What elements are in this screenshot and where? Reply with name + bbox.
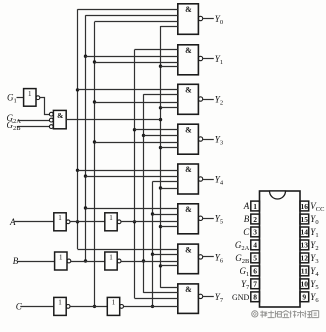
wire C vertical (x=152) — [152, 182, 154, 307]
junction Abar source — [76, 220, 79, 223]
pin 7 (Y7) — [241, 279, 259, 291]
junction Bbar source — [84, 259, 87, 262]
svg-text:16: 16 — [301, 202, 309, 211]
svg-text:3: 3 — [253, 228, 257, 237]
junction Bbar-Y5 — [84, 206, 87, 209]
NAND gate Y0 — [178, 4, 203, 35]
watermark juejin community — [252, 311, 319, 318]
wire input B — [17, 261, 54, 263]
output wire Y5 — [203, 218, 214, 220]
NAND gate Y1 — [178, 45, 203, 75]
junction E-Y3 — [159, 146, 162, 149]
junction Bbar-Y1 — [84, 55, 87, 58]
svg-text:2: 2 — [253, 215, 257, 224]
svg-text:&: & — [185, 5, 192, 14]
junction E-Y4 — [159, 186, 162, 189]
junction B-Y3 — [142, 134, 145, 137]
pin 1 (A) — [243, 201, 260, 211]
svg-text:12: 12 — [301, 254, 309, 263]
inverter G1 — [24, 89, 40, 107]
wire input A — [15, 221, 54, 223]
pin 9 (Y6) — [300, 292, 319, 304]
junction Abar-Y2 — [76, 88, 79, 91]
enable NAND gate — [49, 110, 66, 128]
IC body 74LS138 — [260, 191, 301, 307]
inverter A1 — [54, 213, 70, 231]
wire A to gate column — [121, 221, 178, 223]
svg-text:1: 1 — [109, 214, 113, 222]
pin 14 (Y1) — [300, 227, 319, 239]
wire Abar segment — [70, 221, 105, 223]
inverter C1 — [54, 297, 70, 315]
pin 5 (G2B) — [235, 253, 259, 265]
pin 2 (B) — [244, 214, 260, 224]
wire B vertical (x=143) — [143, 94, 145, 293]
output wire Y0 — [203, 18, 214, 20]
output wire Y3 — [203, 139, 214, 141]
output wire Y1 — [203, 58, 214, 60]
junction Cbar-Y1 — [93, 60, 96, 63]
svg-text:8: 8 — [253, 293, 257, 302]
svg-text:&: & — [185, 165, 192, 174]
junction E-Y1 — [159, 65, 162, 68]
wire Bbar segment — [71, 261, 105, 263]
wire C to gate column — [124, 306, 178, 308]
wire G2B — [18, 126, 50, 128]
wire Bbar vertical (x=86) — [85, 15, 87, 261]
pin 10 (Y5) — [300, 279, 319, 291]
wire Abar vertical (x=77) — [77, 9, 79, 249]
svg-text:14: 14 — [301, 228, 309, 237]
svg-text:A: A — [243, 201, 250, 211]
output wire Y2 — [203, 99, 214, 101]
wire Cbar segment — [70, 306, 107, 308]
NAND gate Y4 — [178, 164, 203, 194]
svg-text:B: B — [244, 214, 250, 224]
NAND gate Y7 — [178, 284, 203, 314]
junction C-Y6 — [151, 253, 154, 256]
junction A source — [133, 220, 136, 223]
junction A-Y3 — [133, 128, 136, 131]
junction Bbar-Y4 — [84, 174, 87, 177]
wire G2A — [18, 120, 50, 122]
svg-text:11: 11 — [301, 267, 308, 276]
NAND gate Y2 — [178, 84, 203, 114]
junction E source — [159, 118, 162, 121]
junction E-Y6 — [159, 264, 162, 267]
wire Cbar vertical (x=94) — [94, 22, 96, 307]
output wire Y4 — [203, 179, 214, 181]
svg-text:&: & — [185, 125, 192, 134]
pin 13 (Y2) — [300, 240, 319, 252]
junction Cbar-Y2 — [93, 100, 96, 103]
inverter B2 — [105, 252, 121, 270]
junction C-Y5 — [151, 212, 154, 215]
svg-text:10: 10 — [301, 280, 309, 289]
wire G1bar elbow — [40, 98, 50, 115]
output wire Y6 — [203, 256, 214, 258]
pin 12 (Y3) — [300, 253, 319, 265]
svg-text:C: C — [243, 227, 250, 237]
junction B source — [142, 259, 145, 262]
pin 8 (GND) — [232, 292, 260, 302]
svg-text:4: 4 — [253, 241, 257, 250]
wire A vertical (x=135) — [134, 50, 136, 299]
junction Cbar-Y3 — [93, 140, 96, 143]
svg-text:&: & — [185, 86, 192, 95]
svg-text:6: 6 — [253, 267, 257, 276]
junction E-Y5 — [159, 225, 162, 228]
NAND gate Y5 — [178, 204, 203, 234]
svg-text:1: 1 — [109, 253, 113, 261]
wire input C — [20, 306, 54, 308]
svg-text:1: 1 — [59, 253, 63, 261]
svg-text:5: 5 — [253, 254, 257, 263]
svg-text:&: & — [185, 245, 192, 254]
inverter B1 — [55, 252, 71, 270]
junction Cbar source — [93, 305, 96, 308]
inverter C2 — [107, 297, 123, 315]
svg-text:&: & — [185, 46, 192, 55]
pin 3 (C) — [243, 227, 259, 237]
svg-text:1: 1 — [28, 90, 32, 98]
junction E-Y2 — [159, 106, 162, 109]
wire E enable vertical (x=161) — [160, 26, 162, 288]
svg-text:1: 1 — [58, 214, 62, 222]
pin 16 (VCC) — [300, 201, 324, 213]
svg-text:15: 15 — [301, 215, 309, 224]
NAND gate Y3 — [178, 124, 203, 154]
pin 6 (G1) — [240, 266, 260, 278]
svg-text:&: & — [57, 111, 63, 120]
svg-text:9: 9 — [302, 293, 306, 302]
pin 15 (Y0) — [300, 214, 319, 226]
NAND gate Y6 — [178, 244, 203, 274]
svg-text:1: 1 — [112, 299, 116, 307]
wire enable output — [66, 119, 160, 121]
svg-text:7: 7 — [253, 280, 257, 289]
svg-text:GND: GND — [232, 293, 250, 302]
wire B to gate column — [121, 261, 178, 263]
svg-text:&: & — [185, 205, 192, 214]
pin 11 (Y4) — [300, 266, 319, 278]
wire G1 — [17, 97, 24, 99]
junction Abar-Y4 — [76, 169, 79, 172]
svg-text:1: 1 — [58, 299, 62, 307]
output wire Y7 — [203, 296, 214, 298]
svg-text:1: 1 — [253, 202, 257, 211]
svg-text:13: 13 — [301, 241, 309, 250]
junction C source — [151, 305, 154, 308]
inverter A2 — [105, 213, 121, 231]
pin 4 (G2A) — [235, 240, 260, 252]
svg-text:&: & — [185, 285, 192, 294]
